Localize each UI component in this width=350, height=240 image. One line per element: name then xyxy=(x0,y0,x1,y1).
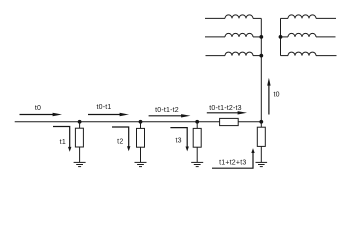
wire: branch 1 to ground xyxy=(79,147,81,162)
wire: left group phase-A to bus xyxy=(253,17,261,19)
svg-text:t0: t0 xyxy=(274,92,280,99)
svg-text:t1+t2+t3: t1+t2+t3 xyxy=(219,159,246,166)
wire: branch 3 down xyxy=(196,122,198,129)
wire: neutral bus down to main line xyxy=(260,18,262,121)
node: left bus / phase-C junction xyxy=(259,54,263,58)
arrow: current t3 into branch 3 xyxy=(170,128,189,152)
inductor: right group phase-C winding xyxy=(288,52,316,55)
wire: left winding group phase-A lead xyxy=(205,17,225,19)
wire: left group phase-C to bus xyxy=(253,55,261,57)
wire: main horizontal line xyxy=(15,121,262,123)
svg-text:t2: t2 xyxy=(117,139,123,146)
inductor: left group phase-B winding xyxy=(225,33,253,37)
wire: branch 2 down xyxy=(140,122,142,129)
resistor: branch 2 shunt xyxy=(137,128,145,147)
wire: left group phase-B to bus xyxy=(253,36,261,38)
wire: left winding group phase-C lead xyxy=(206,55,226,57)
svg-text:t0-t1-t2: t0-t1-t2 xyxy=(155,107,179,114)
svg-text:t0: t0 xyxy=(35,105,41,112)
resistor: branch 1 shunt xyxy=(75,128,83,147)
svg-text:t0-t1: t0-t1 xyxy=(96,104,111,111)
ground: branch 1 xyxy=(74,162,86,166)
node: right bus / phase-B junction xyxy=(279,35,283,39)
wire: right winding group bus xyxy=(280,18,282,55)
node: right junction (bus / main line) xyxy=(259,120,263,124)
arrow: t0-t1-t2-t3 flow on main line xyxy=(207,111,247,114)
inductor: left group phase-C winding xyxy=(225,52,253,55)
wire: branch 3 to ground xyxy=(196,147,198,162)
node: branch 2 junction xyxy=(139,120,143,124)
resistor: branch 3 shunt xyxy=(193,128,201,147)
arrow: current t0 up the bus xyxy=(267,78,270,115)
arrow: current t1 into branch 1 xyxy=(53,127,71,152)
wire: right group phase-B lead xyxy=(316,36,336,38)
node: branch 1 junction xyxy=(78,120,82,124)
wire: right group phase-A lead xyxy=(316,17,336,19)
wire: right shunt to ground xyxy=(260,146,262,162)
ground: branch 3 xyxy=(191,162,203,166)
arrow: t0-t1-t2 flow on main line xyxy=(149,114,191,117)
wire: left winding group phase-B lead xyxy=(205,36,225,38)
arrow: t0 flow on main line xyxy=(20,113,63,116)
node: left bus / phase-B junction xyxy=(259,35,263,39)
wire: right shunt down xyxy=(260,122,262,127)
arrow: current t2 into branch 2 xyxy=(112,127,130,151)
wire: right group phase-C lead xyxy=(316,55,337,57)
resistor: series element in main line xyxy=(220,118,239,125)
resistor: right shunt xyxy=(257,127,265,146)
arrow: current t1+t2+t3 up into right shunt xyxy=(212,148,255,168)
inductor: right group phase-B winding xyxy=(288,33,316,37)
inductor: right group phase-A winding xyxy=(288,15,316,18)
ground: branch 2 xyxy=(135,162,147,166)
inductor: left group phase-A winding xyxy=(225,15,253,18)
svg-text:t3: t3 xyxy=(175,138,181,145)
node: branch 3 junction xyxy=(195,120,199,124)
wire: right group phase-A from bus xyxy=(281,17,289,19)
arrow: t0-t1 flow on main line xyxy=(88,113,129,116)
svg-text:t0-t1-t2-t3: t0-t1-t2-t3 xyxy=(209,105,242,112)
ground: right shunt xyxy=(256,162,268,166)
wire: branch 1 down xyxy=(79,122,81,128)
wire: right group phase-C from bus xyxy=(281,55,289,57)
wire: branch 2 to ground xyxy=(140,147,142,162)
svg-text:t1: t1 xyxy=(60,139,66,146)
wire: right group phase-B from bus xyxy=(281,36,289,38)
